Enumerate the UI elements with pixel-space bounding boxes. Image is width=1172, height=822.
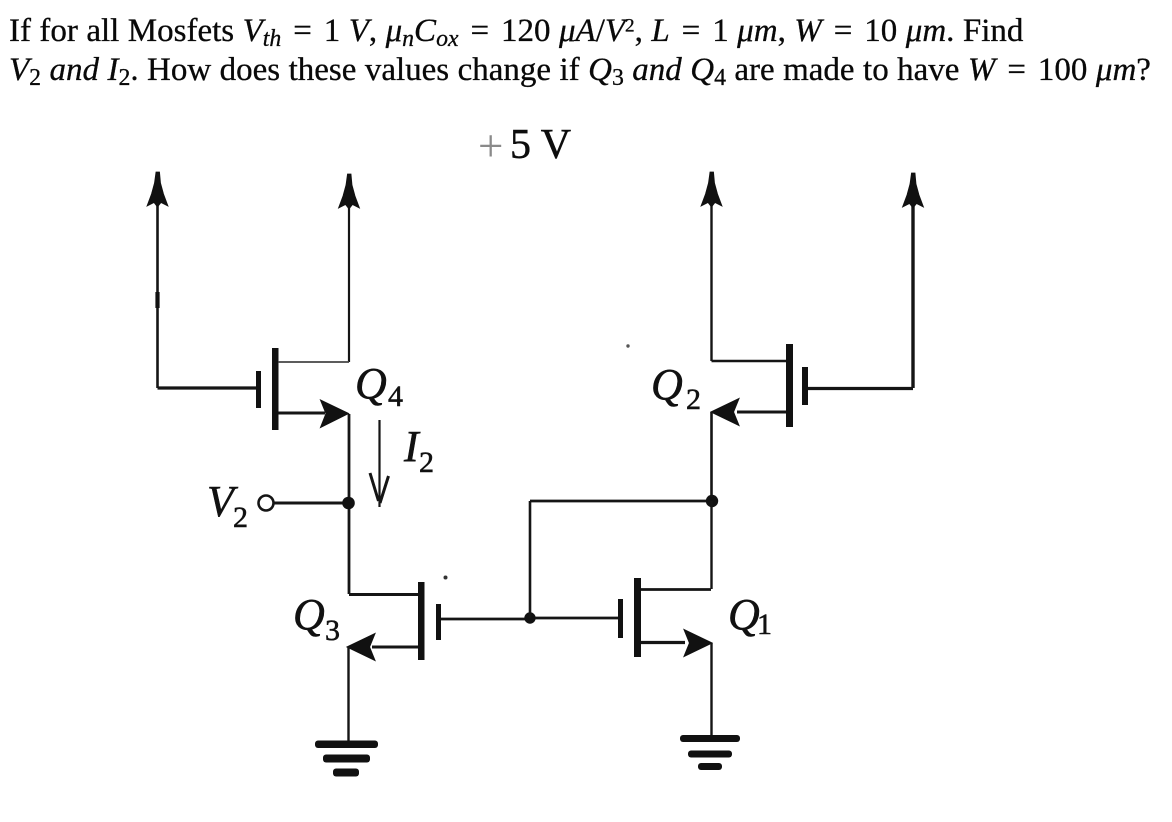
wire: Q4 drain down through V2 node to Q3 drain xyxy=(348,414,351,594)
scan speck near Q2 xyxy=(626,344,629,347)
svg-text:3: 3 xyxy=(325,614,340,647)
Q3 source arrowhead xyxy=(347,634,375,661)
Q1 gate bar xyxy=(618,599,623,638)
node A: gates junction dot xyxy=(524,612,535,623)
+5V supply arrow (Q2 source) xyxy=(701,172,722,361)
+5V supply arrow (far left) xyxy=(147,172,168,388)
problem statement text xyxy=(9,12,1172,89)
Q2 gate bar xyxy=(802,367,808,405)
Q4 top (source) lead xyxy=(278,361,349,363)
Q2 source lead xyxy=(737,411,786,414)
ground (under Q3) xyxy=(315,741,378,777)
wire: Q2 source down to drain node xyxy=(710,412,713,497)
svg-text:5 V: 5 V xyxy=(510,122,571,168)
wire: Q3 source to ground xyxy=(347,647,349,741)
Q4 bottom (drain) lead xyxy=(278,412,325,415)
wire: drain node down to Q1 drain lead xyxy=(710,501,712,589)
Q1 source lead xyxy=(641,641,685,644)
I2 label xyxy=(403,422,434,479)
svg-text:Q: Q xyxy=(728,590,760,639)
Q1 label xyxy=(728,590,772,641)
svg-text:4: 4 xyxy=(388,380,403,413)
wire: gates junction to Q1 gate xyxy=(535,617,618,620)
wire: V2 terminal to junction xyxy=(274,502,346,505)
svg-text:+: + xyxy=(478,121,503,171)
Q2 drain (top) lead xyxy=(712,360,787,362)
Q3 source lead xyxy=(372,646,418,649)
Q4 label xyxy=(355,359,403,413)
+5V label xyxy=(478,121,571,171)
scan blotch on left rail xyxy=(155,292,159,308)
ground (under Q1) xyxy=(680,735,740,770)
svg-text:1: 1 xyxy=(757,608,772,641)
Q2 source arrowhead xyxy=(711,399,739,426)
wire: junction up to drain-node row xyxy=(529,501,532,618)
Q4 gate bar xyxy=(256,371,261,408)
svg-text:Q: Q xyxy=(293,590,325,639)
transistor Q3 xyxy=(347,582,527,661)
Q4 channel bar xyxy=(272,348,279,430)
node V2 terminal circle xyxy=(259,496,274,511)
Q3 drain lead (corner from vertical) xyxy=(349,593,418,596)
Q3 gate lead xyxy=(441,618,527,621)
V2 label xyxy=(207,477,248,534)
Q1 drain (top) lead xyxy=(641,588,711,591)
Q1 channel bar xyxy=(634,578,641,657)
Q2 label xyxy=(651,360,701,416)
wire: feedback horizontal to Q2/Q1 drain node xyxy=(530,500,710,503)
+5V supply arrow (Q4 source) xyxy=(339,174,360,362)
transistor Q4 xyxy=(256,348,349,430)
Q2 gate lead xyxy=(808,387,913,390)
Q1 source arrowhead xyxy=(684,630,712,657)
Q4 drain arrowhead xyxy=(321,400,349,428)
scan speck near Q3 xyxy=(444,576,448,580)
wire: Q1 source down to ground xyxy=(710,643,712,736)
current arrow I2 xyxy=(370,420,389,507)
svg-text:2: 2 xyxy=(419,446,434,479)
transistor Q1 xyxy=(618,578,712,657)
wire: far-left rail corner to Q4 gate xyxy=(158,386,257,389)
Q2 channel bar xyxy=(786,344,793,427)
svg-text:2: 2 xyxy=(686,383,701,416)
svg-text:2: 2 xyxy=(233,501,248,534)
Q3 label xyxy=(293,590,340,647)
+5V supply arrow (far right, Q2 gate) xyxy=(903,173,924,388)
svg-text:Q: Q xyxy=(651,360,683,409)
transistor Q2 xyxy=(711,344,913,427)
Q3 gate bar xyxy=(436,604,441,640)
junction dot V2 node xyxy=(342,497,355,510)
Q3 channel bar xyxy=(418,582,425,660)
svg-text:Q: Q xyxy=(355,359,387,408)
junction dot drain node xyxy=(706,495,718,507)
